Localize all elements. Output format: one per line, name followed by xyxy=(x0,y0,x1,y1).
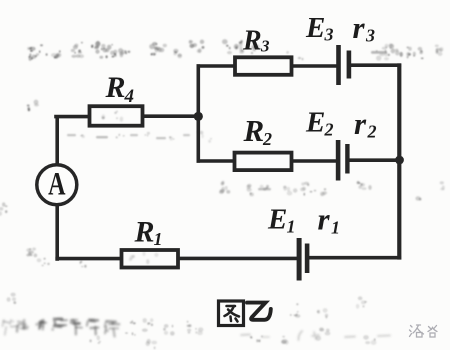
svg-text:R: R xyxy=(243,113,265,148)
svg-text:r: r xyxy=(353,10,366,45)
svg-text:E: E xyxy=(305,12,325,44)
svg-text:1: 1 xyxy=(287,217,296,237)
svg-text:R: R xyxy=(134,216,155,249)
svg-text:3: 3 xyxy=(365,26,375,46)
svg-text:2: 2 xyxy=(324,120,334,140)
svg-text:r: r xyxy=(354,106,367,141)
svg-text:R: R xyxy=(242,26,262,57)
svg-text:E: E xyxy=(267,204,287,236)
svg-text:1: 1 xyxy=(154,229,163,249)
svg-text:3: 3 xyxy=(324,25,334,45)
svg-text:A: A xyxy=(48,166,66,203)
svg-text:R: R xyxy=(105,71,126,104)
svg-text:E: E xyxy=(305,107,325,139)
svg-text:4: 4 xyxy=(124,86,135,107)
svg-text:r: r xyxy=(318,202,331,237)
svg-text:2: 2 xyxy=(367,122,377,142)
svg-text:3: 3 xyxy=(260,37,270,56)
svg-text:1: 1 xyxy=(331,218,340,238)
svg-text:2: 2 xyxy=(262,129,272,149)
